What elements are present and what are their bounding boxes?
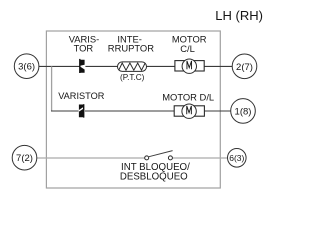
wire: pin 7(2) to lock switch (gray) <box>37 157 145 159</box>
label: INT BLOQUEO/ DESBLOQUEO <box>120 162 190 182</box>
svg-text:DESBLOQUEO: DESBLOQUEO <box>120 171 188 182</box>
wire: motor D/L to pin 1(8) <box>204 110 230 112</box>
motor C/L <box>175 59 204 73</box>
connector pin 3(6) <box>14 54 39 79</box>
svg-text:(P.T.C): (P.T.C) <box>120 73 145 82</box>
label: INTE- / RRUPTOR <box>108 34 154 54</box>
wire: varistor VR1 to PTC interruptor <box>85 65 117 67</box>
component box (window motor module) <box>46 31 220 188</box>
svg-text:LH (RH): LH (RH) <box>215 8 263 23</box>
connector pin 2(7) <box>232 54 257 79</box>
wire: PTC interruptor to motor C/L <box>147 65 175 67</box>
lock/unlock switch S1 <box>145 151 173 160</box>
wire: lock switch to pin 6(3) (gray) <box>172 157 228 159</box>
svg-text:1(8): 1(8) <box>235 106 252 117</box>
wire: varistor VR2 to motor D/L <box>85 110 174 112</box>
PTC interruptor (thermal protector) <box>118 62 147 72</box>
varistor VR2 <box>79 104 84 117</box>
varistor VR1 <box>80 59 85 73</box>
svg-text:TOR: TOR <box>74 43 94 54</box>
svg-text:3(6): 3(6) <box>18 62 35 73</box>
connector pin 7(2) <box>12 145 37 170</box>
svg-text:C/L: C/L <box>180 43 195 54</box>
wire: pin 3(6) to varistor VR1 <box>39 65 80 67</box>
svg-text:MOTOR D/L: MOTOR D/L <box>162 91 214 102</box>
wire: branch corner to varistor VR2 <box>51 110 79 112</box>
svg-text:6(3): 6(3) <box>229 153 244 163</box>
svg-text:2(7): 2(7) <box>236 62 253 73</box>
wire: branch from row 1 down to row 2 (gray vertical) <box>51 66 53 111</box>
label: VARIS- / TOR <box>69 34 100 54</box>
connector pin 6(3) <box>228 149 247 168</box>
svg-text:RRUPTOR: RRUPTOR <box>108 43 154 54</box>
svg-text:7(2): 7(2) <box>16 153 33 164</box>
motor D/L <box>174 104 204 118</box>
label: MOTOR / C/L <box>172 34 207 55</box>
wire: motor C/L to pin 2(7) <box>204 65 232 67</box>
connector pin 1(8) <box>231 99 256 124</box>
svg-text:VARISTOR: VARISTOR <box>58 91 104 101</box>
